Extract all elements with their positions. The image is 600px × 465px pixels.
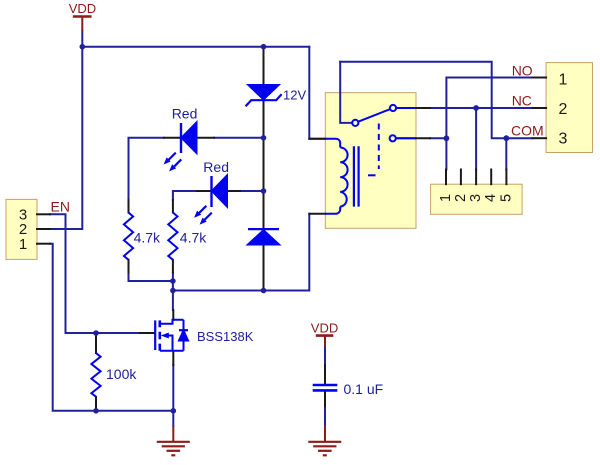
svg-text:Red: Red [203, 159, 229, 175]
svg-text:2: 2 [559, 101, 568, 118]
svg-text:1: 1 [19, 236, 27, 253]
svg-text:1: 1 [559, 71, 568, 88]
svg-text:3: 3 [468, 194, 484, 202]
svg-text:4: 4 [483, 194, 499, 202]
svg-text:EN: EN [51, 198, 70, 214]
svg-text:2: 2 [453, 194, 469, 202]
svg-text:Red: Red [172, 106, 198, 122]
svg-text:VDD: VDD [311, 320, 338, 335]
svg-text:4.7k: 4.7k [180, 229, 207, 245]
svg-text:3: 3 [559, 131, 568, 148]
svg-text:5: 5 [498, 194, 514, 202]
svg-text:100k: 100k [106, 366, 137, 382]
svg-text:COM: COM [511, 122, 544, 138]
svg-text:NO: NO [512, 62, 533, 78]
svg-text:VDD: VDD [69, 1, 96, 16]
svg-text:12V: 12V [283, 88, 306, 103]
svg-text:BSS138K: BSS138K [197, 329, 254, 344]
svg-text:4.7k: 4.7k [134, 229, 161, 245]
svg-text:NC: NC [512, 92, 532, 108]
svg-text:1: 1 [438, 194, 454, 202]
svg-text:0.1 uF: 0.1 uF [344, 381, 384, 397]
